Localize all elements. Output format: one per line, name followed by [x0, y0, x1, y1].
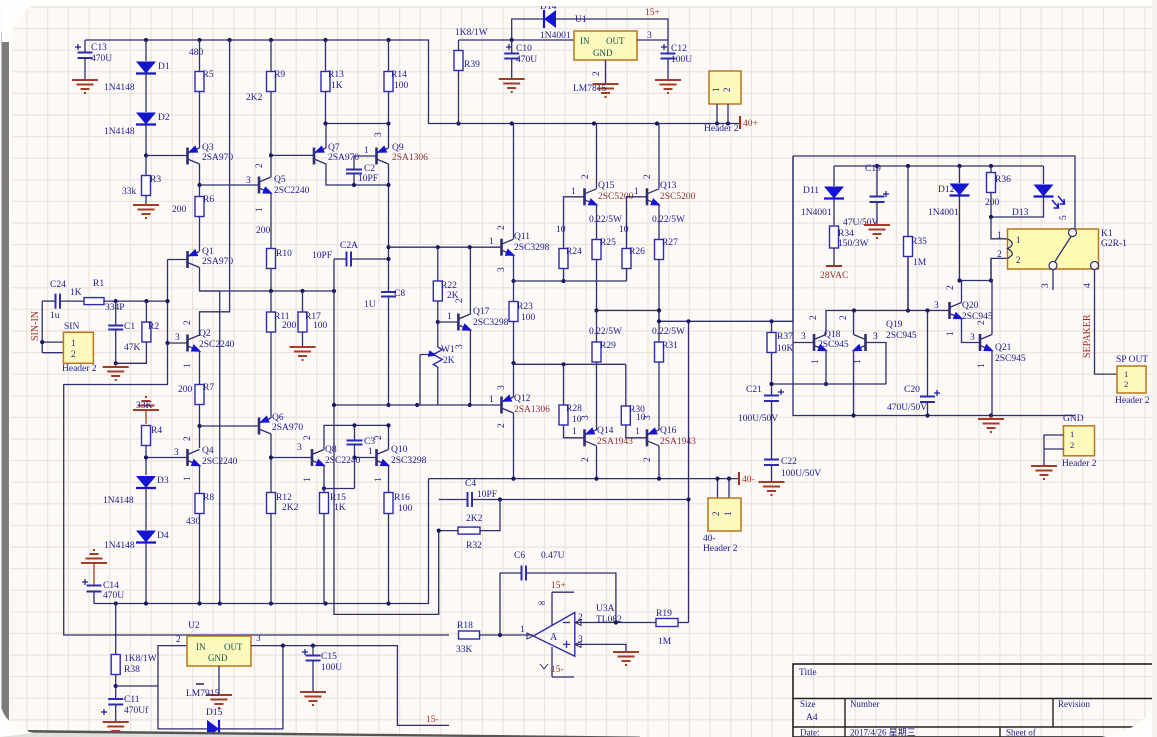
svg-text:2: 2 [578, 613, 583, 623]
transistor Q21 2SC945 [979, 334, 982, 351]
resistor R9 2K2 [270, 40, 272, 71]
svg-text:SEPAKER: SEPAKER [1082, 314, 1093, 358]
wire negative rail y603 [94, 479, 429, 604]
LED D13 [1043, 166, 1045, 184]
wire protection top line to relay [793, 156, 1075, 231]
svg-text:2SC3298: 2SC3298 [473, 318, 509, 328]
node R4-D3 junction [144, 455, 148, 459]
capacitor C4 10PF [439, 499, 467, 501]
resistor R25 0.22/5W [592, 240, 601, 260]
svg-text:47K: 47K [124, 343, 141, 353]
svg-text:Q1: Q1 [202, 247, 214, 257]
svg-text:C12: C12 [671, 44, 687, 54]
transistor Q19 2SC945 mirrored [864, 334, 867, 351]
diode D11 1N4001 [833, 166, 835, 186]
svg-text:R35: R35 [911, 237, 927, 247]
opamp U3A TL082 [533, 613, 575, 657]
resistor R12 2K2 [267, 493, 276, 514]
svg-text:A4: A4 [806, 713, 818, 723]
svg-text:100: 100 [313, 321, 328, 331]
svg-text:1K: 1K [70, 288, 82, 298]
wire Q14 emitter top [596, 428, 598, 430]
ground under C10 [499, 79, 525, 92]
wire Q13 emitter to R27 [658, 205, 660, 239]
transistor Q6 2SA970 [258, 418, 261, 435]
transistor Q1 2SA970 [186, 251, 189, 268]
svg-text:1N4148: 1N4148 [104, 127, 135, 137]
wire Q17 collector [469, 247, 471, 314]
svg-text:2: 2 [643, 174, 653, 179]
svg-text:2SA1306: 2SA1306 [514, 405, 550, 415]
svg-text:3: 3 [374, 132, 384, 137]
svg-text:R8: R8 [203, 493, 214, 503]
wire Q16 collector to rail [658, 446, 660, 479]
resistor R32 2K2 [439, 530, 458, 532]
svg-text:2: 2 [497, 225, 507, 230]
ground under GND header [1031, 466, 1057, 479]
svg-text:Q15: Q15 [598, 181, 615, 191]
svg-text:470U/50V: 470U/50V [887, 403, 927, 413]
svg-text:Q8: Q8 [325, 445, 337, 455]
regulator U2 LM7915 [187, 636, 251, 666]
svg-text:R24: R24 [566, 247, 582, 257]
wire 15V reg input rail [459, 39, 575, 41]
svg-text:R5: R5 [203, 70, 214, 80]
svg-text:TL082: TL082 [596, 615, 622, 625]
svg-text:U3A: U3A [596, 604, 615, 614]
resistor R35 1M [907, 166, 909, 236]
svg-text:R15: R15 [330, 493, 346, 503]
diode D3 1N4148 [136, 476, 156, 488]
svg-text:R26: R26 [629, 247, 645, 257]
opamp V+ 15+ [552, 592, 574, 625]
svg-text:4: 4 [1083, 283, 1093, 288]
svg-text:2: 2 [1124, 379, 1128, 389]
transistor Q10 2SC3298 [375, 449, 378, 466]
svg-text:100U: 100U [671, 55, 692, 65]
svg-text:1K: 1K [334, 503, 346, 513]
svg-text:1K: 1K [331, 81, 343, 91]
transistor Q14 2SA1943 [583, 429, 586, 446]
svg-text:R1: R1 [93, 279, 104, 289]
ground under C19 [864, 225, 890, 238]
svg-text:100U: 100U [321, 663, 342, 673]
capacitor C13 [84, 40, 86, 52]
svg-text:C19: C19 [865, 164, 881, 174]
svg-text:40-: 40- [703, 534, 716, 544]
ground inverted above R4 [133, 397, 159, 410]
svg-text:R38: R38 [124, 665, 140, 675]
svg-text:R6: R6 [203, 195, 214, 205]
wire Q19 emitter to gnd rail [853, 351, 855, 416]
svg-text:SP OUT: SP OUT [1116, 355, 1148, 365]
svg-text:Q20: Q20 [962, 301, 979, 311]
svg-text:1M: 1M [658, 637, 672, 647]
wire Q12 base line [334, 404, 502, 406]
svg-text:2: 2 [183, 436, 193, 441]
resistor R10 200 [267, 249, 276, 269]
wire Q5 emitter to R10 [270, 193, 272, 248]
svg-text:200: 200 [172, 205, 187, 215]
svg-text:IN: IN [580, 36, 590, 46]
svg-text:1: 1 [71, 338, 76, 348]
wire Q8 emitter to R15 [323, 489, 325, 494]
diode D4 1N4148 [136, 531, 156, 543]
svg-text:R36: R36 [995, 175, 1011, 185]
svg-text:3: 3 [873, 332, 878, 342]
svg-text:15+: 15+ [645, 8, 660, 18]
svg-text:2: 2 [839, 315, 849, 320]
svg-text:3: 3 [497, 385, 507, 390]
capacitor C1 334P [115, 301, 117, 325]
wire Q6 emitter [270, 416, 272, 418]
svg-text:1: 1 [520, 625, 525, 635]
svg-text:2: 2 [303, 435, 313, 440]
node Q17 base junction [436, 320, 440, 324]
transistor Q8 2SC2240 [311, 449, 314, 466]
svg-text:2SC3298: 2SC3298 [391, 456, 427, 466]
svg-text:R29: R29 [600, 341, 616, 351]
svg-text:Q7: Q7 [328, 143, 340, 153]
wire Q13 collector [658, 124, 660, 189]
node R23 bottom junction [511, 361, 515, 365]
svg-text:1M: 1M [913, 258, 927, 268]
wire Q1 base [168, 259, 188, 261]
svg-text:100: 100 [394, 81, 409, 91]
diode D2 1N4148 [136, 113, 156, 125]
node Q10 base tap [352, 455, 356, 459]
svg-text:Q12: Q12 [514, 394, 531, 404]
svg-text:R32: R32 [466, 541, 482, 551]
header GND Header 2 [1064, 426, 1095, 456]
svg-text:C11: C11 [124, 695, 140, 705]
svg-text:Header 2: Header 2 [703, 544, 738, 554]
opamp V- 15- [552, 647, 574, 677]
wire input column x167 [167, 260, 169, 344]
svg-text:C14: C14 [103, 581, 119, 591]
ground under R17 [290, 347, 316, 360]
svg-text:1N4148: 1N4148 [104, 83, 135, 93]
svg-text:R2: R2 [148, 322, 159, 332]
svg-text:OUT: OUT [606, 36, 625, 46]
svg-text:430: 430 [186, 517, 201, 527]
resistor R4 [142, 426, 151, 446]
svg-text:R16: R16 [394, 493, 410, 503]
svg-text:2: 2 [1070, 440, 1074, 450]
svg-text:10PF: 10PF [477, 490, 497, 500]
wire Q8 emitter loop [324, 466, 355, 489]
resistor R3 33k [145, 156, 147, 176]
wire opamp inverting input [575, 622, 656, 624]
wire opamp non-inverting input [575, 644, 626, 652]
wire relay pin4 to SP OUT [1095, 270, 1118, 375]
svg-text:2: 2 [711, 512, 721, 517]
capacitor C21 100U/50V [764, 396, 779, 402]
svg-text:0.22/5W: 0.22/5W [652, 215, 685, 225]
svg-text:1U: 1U [364, 300, 376, 310]
svg-text:40-: 40- [742, 475, 755, 485]
svg-text:1: 1 [1016, 235, 1021, 245]
svg-text:R37: R37 [777, 332, 793, 342]
resistor R22 2K [437, 247, 439, 281]
wire y291 line [200, 290, 335, 292]
transistor Q13 2SC5200 [646, 188, 649, 205]
wire GND header pins [1044, 435, 1064, 466]
wire bias rail segment [326, 123, 389, 125]
svg-text:Q16: Q16 [660, 426, 677, 436]
svg-text:2: 2 [497, 423, 507, 428]
svg-text:Date:: Date: [800, 728, 820, 737]
svg-text:1: 1 [811, 359, 821, 364]
svg-text:Size: Size [800, 699, 816, 709]
svg-text:W1: W1 [441, 345, 455, 355]
wire Q7 collector down and across [326, 164, 389, 185]
svg-text:2: 2 [581, 457, 591, 462]
resistor R15 1K [320, 493, 329, 514]
wire Q17 emitter [469, 330, 471, 405]
transistor Q18 2SC945 [813, 334, 816, 351]
svg-text:2: 2 [722, 88, 732, 93]
svg-text:2: 2 [183, 320, 193, 325]
svg-text:2: 2 [455, 298, 465, 303]
svg-text:1: 1 [447, 312, 452, 322]
svg-text:0.22/5W: 0.22/5W [589, 215, 622, 225]
svg-text:1: 1 [853, 359, 863, 364]
svg-text:Sheet of: Sheet of [1006, 728, 1036, 737]
node D2-R3-Q3 junction [144, 153, 148, 157]
svg-text:1: 1 [572, 427, 577, 437]
svg-text:C2: C2 [364, 164, 375, 174]
wire U1 pin3 out [637, 39, 668, 41]
svg-text:2K2: 2K2 [246, 93, 263, 103]
resistor R2 47K [145, 301, 147, 322]
capacitor C22 100U/50V [764, 460, 779, 466]
wire negative rail 40- [429, 478, 740, 480]
svg-text:33K: 33K [456, 645, 473, 655]
wire Q5 collector net to Q7 base [271, 154, 314, 156]
title block frame [793, 664, 1157, 737]
svg-text:Q4: Q4 [202, 446, 214, 456]
node Q5 base tap [197, 183, 201, 187]
svg-text:470U: 470U [91, 54, 112, 64]
svg-text:2K: 2K [443, 356, 455, 366]
wire relay coil pin1 [991, 217, 1008, 239]
svg-text:Q10: Q10 [391, 445, 408, 455]
transistor Q4 2SC2240 [186, 449, 189, 466]
svg-text:Q14: Q14 [597, 426, 614, 436]
wire relay pin3 [1052, 270, 1054, 291]
svg-text:0.22/5W: 0.22/5W [652, 327, 685, 337]
svg-text:R28: R28 [566, 404, 582, 414]
svg-text:2SA970: 2SA970 [202, 153, 233, 163]
svg-text:1: 1 [183, 363, 193, 368]
ground under C11 [103, 722, 129, 735]
svg-text:R19: R19 [656, 609, 672, 619]
wire Q18 base [793, 322, 814, 343]
svg-text:C10: C10 [516, 44, 532, 54]
node Q11 emitter junction [511, 279, 515, 283]
header 40+ Header 2 [709, 71, 741, 104]
svg-text:200: 200 [256, 226, 271, 236]
wire Q9 base [354, 155, 377, 157]
svg-text:GND: GND [1063, 414, 1084, 424]
wire Q4 base [146, 457, 188, 459]
power port 28VAC [826, 265, 842, 267]
svg-text:1: 1 [635, 427, 640, 437]
svg-text:2SC2240: 2SC2240 [199, 340, 235, 350]
relay switch contacts [1054, 235, 1072, 263]
svg-text:2SA970: 2SA970 [202, 257, 233, 267]
svg-text:R14: R14 [391, 70, 407, 80]
node C8 taps [386, 245, 390, 249]
svg-text:C22: C22 [781, 457, 797, 467]
svg-text:1: 1 [1124, 369, 1128, 379]
svg-text:R7: R7 [203, 383, 214, 393]
svg-text:480: 480 [189, 48, 204, 58]
node R2 top [144, 299, 148, 303]
svg-text:1: 1 [946, 331, 956, 336]
svg-text:1: 1 [634, 187, 639, 197]
wire Q10 collector [388, 425, 390, 449]
ground under C12 [655, 80, 681, 93]
svg-text:100: 100 [398, 504, 413, 514]
node R38-C11 junction [114, 684, 118, 688]
svg-text:2SC945: 2SC945 [995, 354, 1026, 364]
svg-text:1: 1 [183, 476, 193, 481]
svg-text:0.22/5W: 0.22/5W [589, 327, 622, 337]
diode D12 1N4001 [959, 166, 961, 183]
resistor R11 200 [267, 312, 276, 332]
svg-text:2: 2 [581, 174, 591, 179]
svg-text:1N4001: 1N4001 [801, 208, 832, 218]
svg-text:3: 3 [297, 443, 302, 453]
wire header pin2 [42, 352, 63, 354]
resistor R13 1K [325, 40, 327, 71]
wire Q5 collector [270, 155, 272, 177]
svg-text:Revision: Revision [1058, 699, 1091, 709]
wire Q14 collector to rail [596, 446, 598, 479]
svg-text:2K2: 2K2 [282, 503, 299, 513]
transistor Q11 2SC3298 [500, 239, 503, 256]
svg-text:0.47U: 0.47U [541, 551, 565, 561]
resistor R30 10 [621, 406, 630, 425]
svg-text:D3: D3 [157, 476, 169, 486]
svg-text:3: 3 [643, 415, 653, 420]
svg-text:3: 3 [647, 31, 652, 41]
resistor R34 150/3W [830, 226, 839, 248]
svg-text:100U/50V: 100U/50V [738, 414, 778, 424]
svg-text:100: 100 [521, 313, 536, 323]
svg-text:R13: R13 [328, 70, 344, 80]
svg-text:∞: ∞ [538, 598, 545, 609]
svg-text:1: 1 [977, 363, 987, 368]
svg-text:Title: Title [799, 668, 817, 678]
svg-text:1N4001: 1N4001 [928, 208, 959, 218]
svg-text:1: 1 [364, 146, 369, 156]
wire Q17 base [438, 321, 459, 323]
wire Q19 collector [853, 311, 855, 335]
svg-text:3: 3 [256, 634, 261, 644]
capacitor C11 470Uf [108, 699, 123, 705]
svg-text:LM7815: LM7815 [573, 84, 607, 94]
resistor R37 10K [771, 321, 773, 332]
svg-text:2017/4/26 星期三: 2017/4/26 星期三 [850, 728, 916, 737]
wire Q11 base line [389, 246, 502, 248]
svg-text:1: 1 [723, 512, 733, 517]
ground under C1 [115, 363, 117, 367]
svg-text:Q21: Q21 [995, 343, 1012, 353]
header 40- Header 2 [718, 479, 730, 498]
resistor R36 200 [990, 166, 992, 172]
svg-text:C8: C8 [394, 289, 405, 299]
power port 40+ [739, 116, 741, 129]
svg-text:LM7915: LM7915 [186, 689, 220, 699]
wire Q19 base loop [866, 343, 887, 385]
resistor R19 1M [656, 619, 678, 627]
wire Q12 emitter to neg rail [513, 413, 515, 479]
transistor Q7 2SA970 [313, 148, 316, 165]
svg-text:3: 3 [581, 415, 591, 420]
svg-text:3: 3 [801, 332, 806, 342]
node C1-R2 ground junction [114, 361, 118, 365]
ground under U1 [593, 84, 619, 97]
resistor R24 10 [559, 249, 568, 269]
wire Q5 base [200, 184, 260, 186]
svg-text:C15: C15 [321, 652, 337, 662]
svg-text:Q6: Q6 [272, 413, 284, 423]
svg-text:Q19: Q19 [886, 320, 903, 330]
svg-text:1: 1 [255, 207, 265, 212]
ground under C13 [72, 80, 98, 93]
svg-text:D12: D12 [938, 185, 955, 195]
svg-text:1: 1 [997, 231, 1002, 241]
wire Q1 collector jog to long vertical [200, 268, 220, 604]
wire y310 tie [597, 310, 660, 312]
svg-text:2: 2 [643, 457, 653, 462]
svg-text:Header 2: Header 2 [704, 124, 739, 134]
wire protection input from amp [792, 156, 794, 322]
wire protection gnd rail [793, 343, 1075, 416]
svg-text:47U/50V: 47U/50V [843, 218, 879, 228]
svg-text:3: 3 [175, 333, 180, 343]
wire Q21 collector [991, 281, 993, 335]
node C1 junction [114, 299, 118, 303]
capacitor C10 470U [511, 40, 513, 53]
resistor R31 0.22/5W [658, 311, 660, 343]
wire Q16 emitter top [658, 429, 660, 430]
svg-text:D15: D15 [206, 708, 223, 718]
svg-text:2SA1943: 2SA1943 [597, 437, 633, 447]
svg-text:470Uf: 470Uf [124, 705, 149, 716]
svg-text:2SA1943: 2SA1943 [660, 437, 696, 447]
svg-text:2SA1306: 2SA1306 [392, 153, 428, 163]
wire Q3 base [146, 155, 188, 157]
svg-text:3: 3 [934, 301, 939, 311]
wire U2 output [251, 646, 449, 726]
header SIN Header 2 [63, 332, 93, 363]
svg-text:C2A: C2A [340, 241, 358, 251]
wire long vertical Q2 collector to +40 rail [200, 40, 230, 336]
resistor R7 200 [195, 385, 204, 405]
svg-text:C20: C20 [904, 385, 920, 395]
wire Q21 emitter [991, 351, 993, 416]
svg-text:2SA970: 2SA970 [328, 153, 359, 163]
wire Q3 collector to R6 [199, 164, 201, 196]
transistor Q9 2SA1306 [375, 148, 378, 165]
potentiometer W1 2K [437, 322, 439, 347]
svg-text:200: 200 [985, 198, 1000, 208]
svg-text:R25: R25 [600, 238, 616, 248]
